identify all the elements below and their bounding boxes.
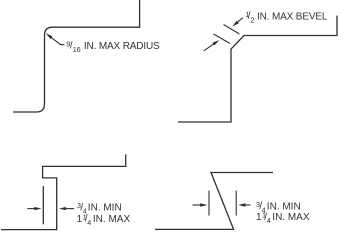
rounded-step profile outline (top-left figure): [13, 0, 140, 112]
right dimension arrow line (bottom-right figure): [242, 204, 251, 206]
svg-text:IN. MAX: IN. MAX: [93, 214, 131, 225]
left arrowhead (bottom-left figure): [34, 207, 41, 210]
svg-text:/: /: [85, 214, 88, 225]
upper extension tick (bevel dimension): [224, 25, 240, 35]
lower extension tick (bevel dimension): [214, 34, 231, 44]
upper leader line from label: [235, 18, 243, 25]
beveled-corner profile outline (top-right figure): [178, 16, 337, 123]
right extension tick (bottom-right figure): [235, 191, 237, 216]
svg-text:IN. MAX BEVEL: IN. MAX BEVEL: [257, 12, 328, 23]
sloped-plate profile outline (bottom-right figure): [155, 173, 273, 230]
svg-text:/: /: [264, 212, 267, 223]
right dimension arrow line (bottom-left figure): [63, 208, 74, 210]
svg-text:/: /: [70, 41, 73, 52]
svg-text:IN. MAX RADIUS: IN. MAX RADIUS: [84, 41, 160, 52]
svg-text:/: /: [248, 11, 251, 22]
left dimension arrow line (bottom-right figure): [193, 204, 203, 206]
left extension tick (bottom-right figure): [208, 191, 210, 216]
right arrowhead (bottom-right figure): [238, 203, 245, 206]
upper arrowhead pointing to bevel: [232, 21, 239, 27]
svg-text:IN. MIN: IN. MIN: [88, 203, 122, 214]
left dimension arrow line (bottom-left figure): [27, 208, 37, 210]
svg-text:IN. MAX: IN. MAX: [272, 212, 310, 223]
right arrowhead (bottom-left figure): [59, 207, 66, 210]
svg-text:IN. MIN: IN. MIN: [267, 201, 301, 212]
arrowhead at radius corner: [46, 33, 53, 39]
lower leader line: [204, 42, 216, 51]
leader line to radius corner: [48, 35, 65, 45]
inner vertical plate line (bottom-left figure): [42, 186, 44, 224]
hooked-plate profile outline (bottom-left figure): [1, 154, 126, 229]
lower arrowhead pointing to bevel: [212, 40, 219, 46]
left arrowhead (bottom-right figure): [200, 203, 207, 206]
